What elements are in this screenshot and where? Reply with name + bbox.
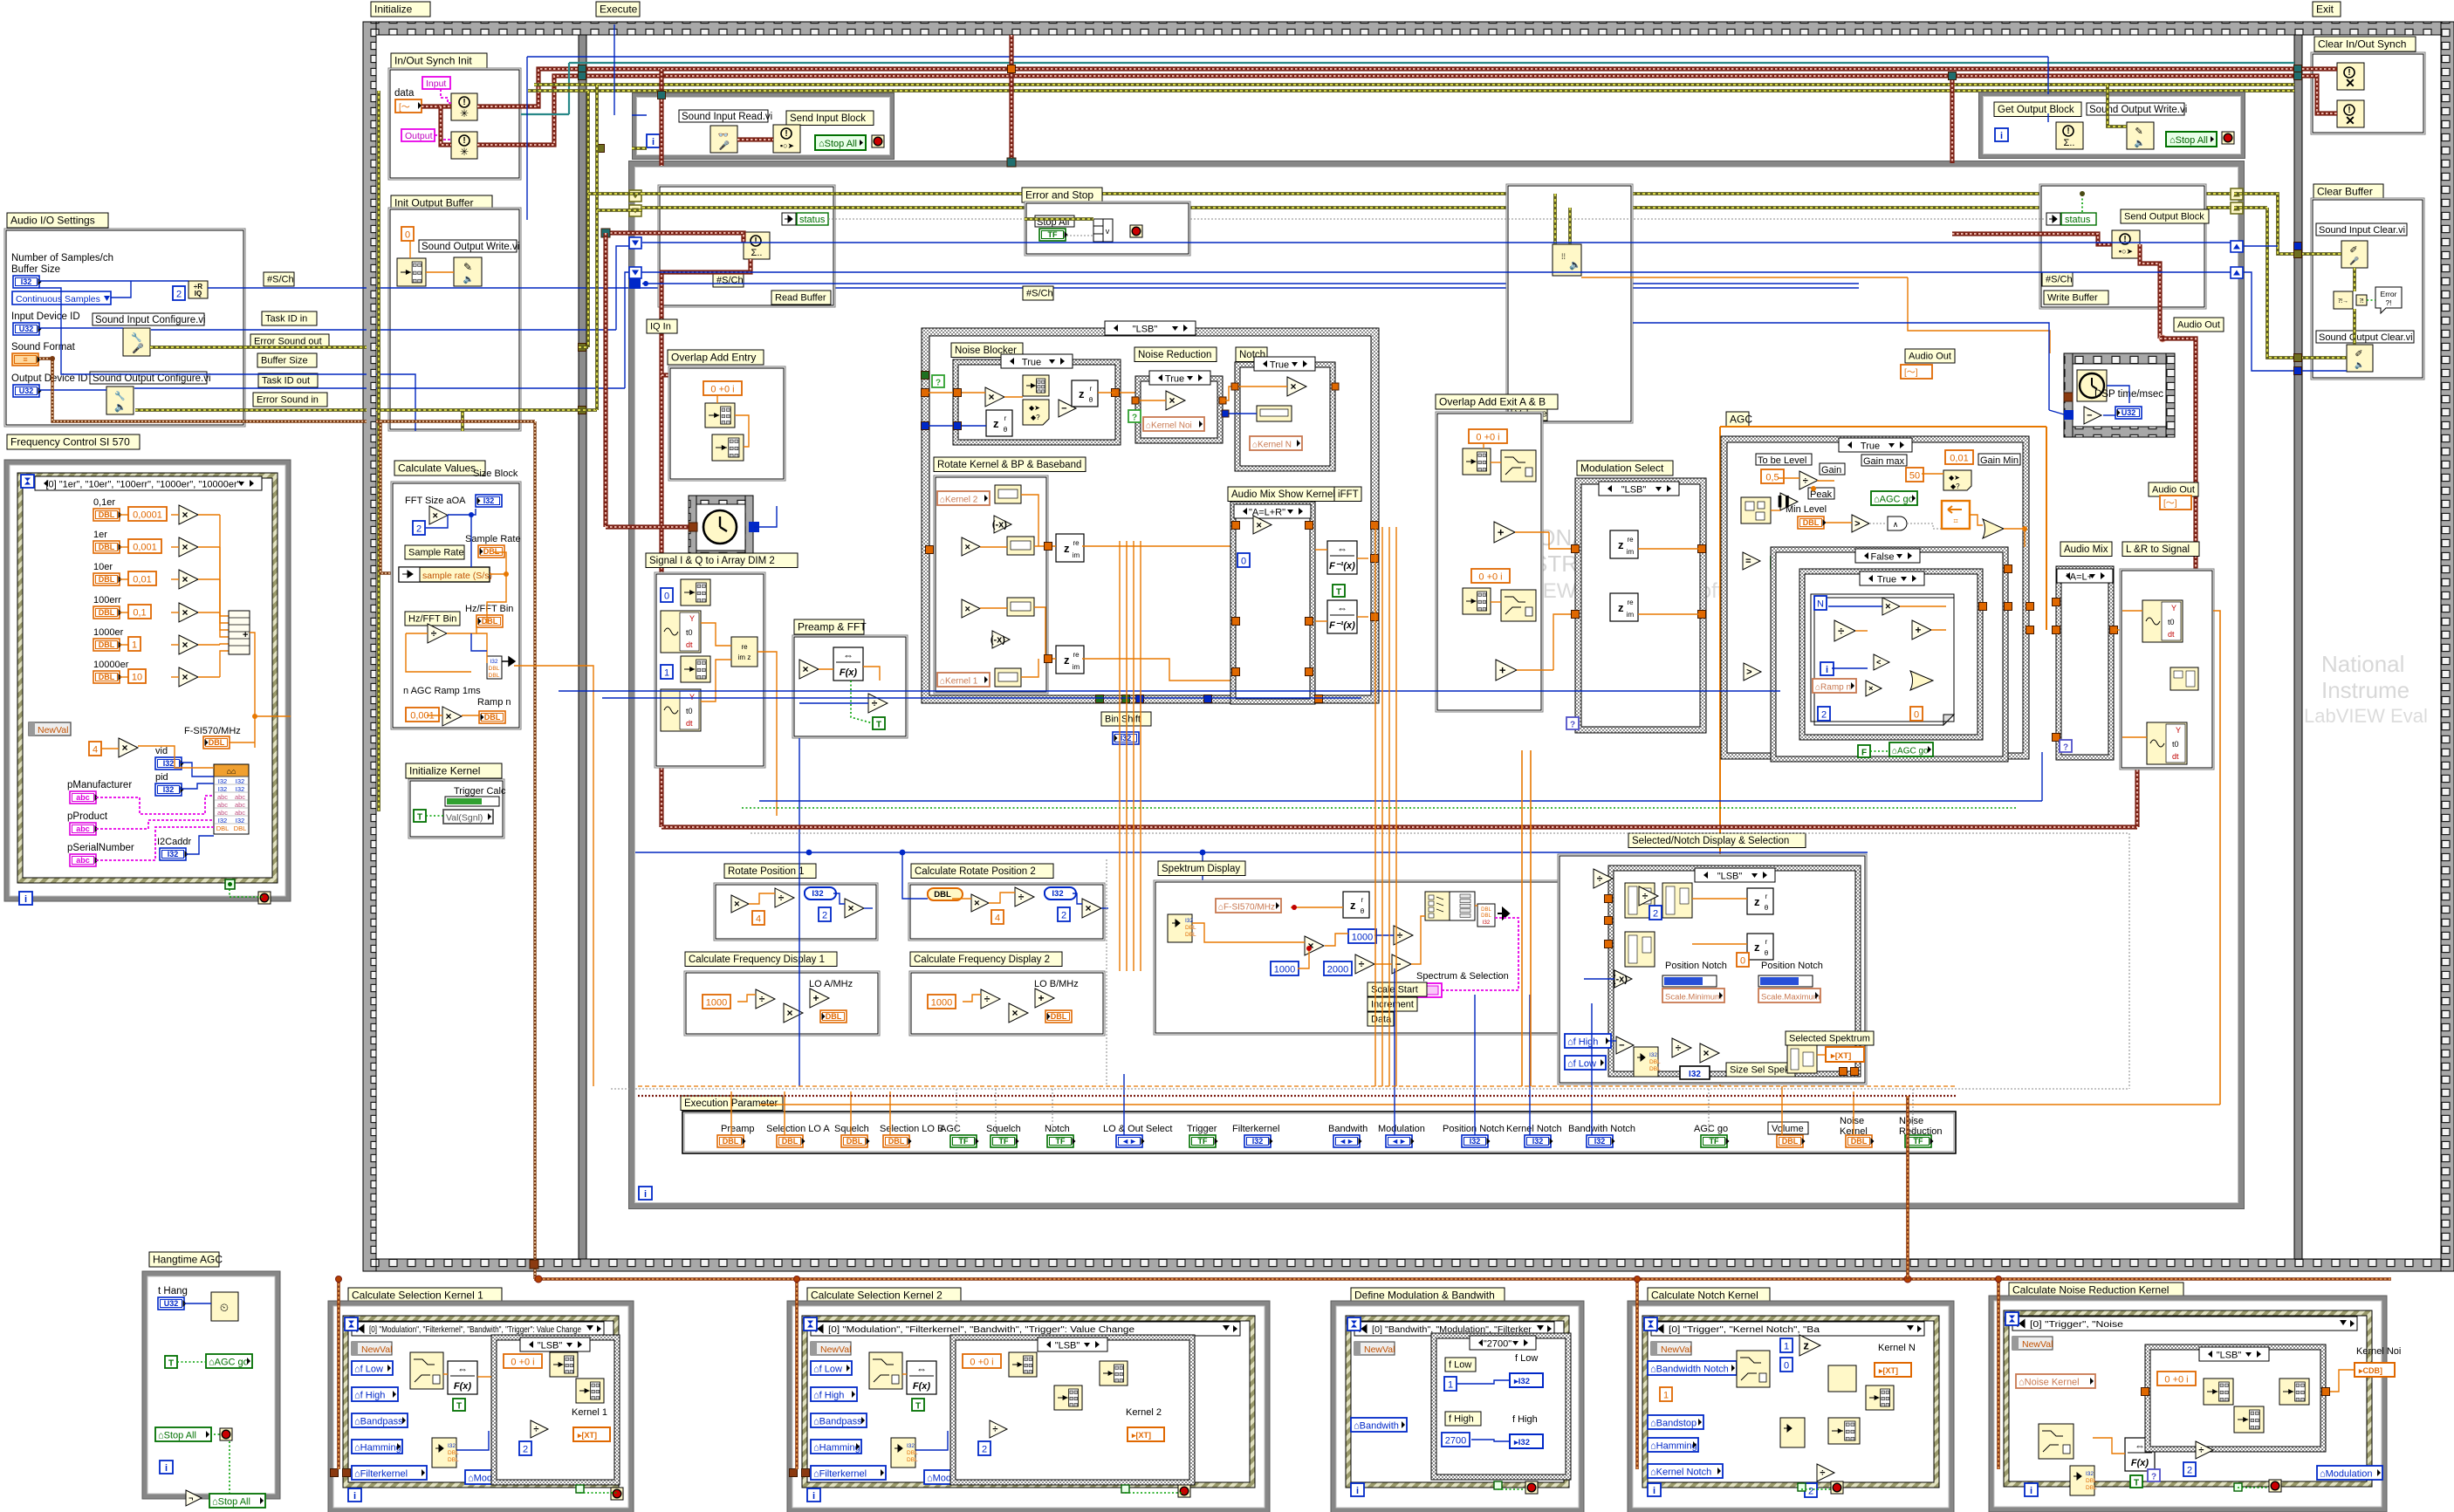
svg-text:[0] "Modulation", "Filterkerne: [0] "Modulation", "Filterkernel", "Bandw… [369,1325,581,1335]
svg-text:dt: dt [2172,752,2179,761]
svg-text:Scale.Minimum: Scale.Minimum [1665,993,1722,1002]
Calculate Rotate Position 1 [724,864,816,879]
svg-text:−: − [1061,404,1066,414]
svg-text:To be Level: To be Level [1758,455,1806,466]
svg-text:Preamp & FFT: Preamp & FFT [798,621,867,633]
svg-text:DBL: DBL [483,547,500,556]
BIG LSB CASE [922,328,1379,703]
Calculate Frequency Display 2 [910,952,1062,967]
svg-text:÷: ÷ [778,892,785,904]
svg-text:NewVal: NewVal [2022,1339,2053,1350]
svg-text:<: < [1876,658,1881,667]
svg-text:DBL: DBL [234,824,247,832]
svg-text:Sound Input Read.vi: Sound Input Read.vi [682,112,772,122]
svg-text:÷: ÷ [984,993,991,1005]
svg-text:10: 10 [132,673,142,683]
svg-text:Clear In/Out Synch: Clear In/Out Synch [2318,38,2406,51]
svg-text:⌂Filterkernel: ⌂Filterkernel [813,1469,867,1480]
svg-text:2700: 2700 [1445,1436,1466,1447]
svg-text:⁞⁞: ⁞⁞ [1561,252,1566,261]
svg-text:÷: ÷ [992,1425,997,1435]
svg-text:Selection LO A: Selection LO A [766,1124,830,1134]
svg-text:Noise: Noise [1840,1116,1864,1126]
svg-text:⇔: ⇔ [1337,602,1347,614]
svg-text:N: N [1817,599,1824,610]
svg-text:i: i [165,1463,168,1474]
svg-text:0 +0 i: 0 +0 i [511,1358,534,1368]
svg-text:F(x): F(x) [2131,1458,2149,1468]
svg-text:÷: ÷ [1642,890,1649,902]
svg-text:2: 2 [176,290,182,300]
svg-text:(-x): (-x) [991,635,1005,646]
svg-text:⁈: ⁈ [2359,298,2363,304]
svg-text:10000er: 10000er [93,660,129,670]
svg-text:Position Notch: Position Notch [1761,961,1823,971]
svg-text:Number of Samples/ch: Number of Samples/ch [11,253,113,263]
svg-text:[0] "Trigger", "Noise: [0] "Trigger", "Noise [2030,1320,2124,1330]
svg-text:🔈: 🔈 [463,275,474,284]
svg-text:⌂Kernel Noi: ⌂Kernel Noi [1146,421,1192,431]
svg-text:+: + [1916,624,1922,636]
svg-text:×: × [1086,902,1092,914]
svg-text:DBL: DBL [99,673,115,681]
svg-text:I32: I32 [812,889,823,899]
svg-text:im z: im z [738,653,751,661]
svg-text:L &R to Signal: L &R to Signal [2126,544,2190,555]
svg-text:÷: ÷ [533,1425,538,1435]
svg-text:▸I32: ▸I32 [1513,1438,1530,1447]
svg-text:F(x): F(x) [454,1381,472,1392]
svg-text:⌂AGC go: ⌂AGC go [1892,747,1929,756]
svg-text:2: 2 [1821,710,1827,721]
svg-text:NewVal: NewVal [1661,1344,1691,1355]
svg-text:I32: I32 [218,785,227,793]
svg-text:i: i [652,137,655,147]
svg-text:TF: TF [1056,1137,1066,1146]
svg-text:4: 4 [93,745,98,756]
svg-text:Modulation: Modulation [1378,1124,1425,1134]
svg-text:1000: 1000 [931,998,952,1009]
svg-text:"A=L+: "A=L+ [2067,572,2093,583]
svg-text:0 +0 i: 0 +0 i [1476,433,1499,443]
svg-text:50: 50 [1909,471,1920,482]
svg-text:AGC go: AGC go [1694,1124,1728,1134]
svg-text:#S/Ch: #S/Ch [267,275,294,285]
labels between box and divider [264,272,294,286]
svg-text:im: im [1627,548,1635,556]
svg-text:Val(Sgnl): Val(Sgnl) [446,813,483,824]
svg-text:+: + [1038,992,1045,1004]
svg-text:#S/Ch: #S/Ch [1026,289,1053,299]
svg-text:z: z [993,417,999,430]
svg-text:÷: ÷ [1018,891,1025,903]
svg-text:2: 2 [1061,911,1066,921]
svg-text:🔧: 🔧 [114,390,125,401]
svg-text:Noise: Noise [1899,1116,1923,1126]
svg-text:T: T [876,721,881,730]
svg-text:DBL: DBL [482,617,498,626]
In/Out Synch Init [391,53,487,68]
sequence left film border [363,22,376,1271]
svg-text:Output: Output [405,131,433,141]
svg-text:i: i [24,894,27,905]
svg-text:F(x): F(x) [840,667,858,678]
sequence top film border [363,22,2454,35]
svg-text:abc: abc [76,856,90,865]
svg-text:t0: t0 [2172,740,2179,749]
svg-text:I32: I32 [490,659,497,665]
svg-text:1000: 1000 [706,998,727,1009]
svg-text:TF: TF [1048,230,1058,239]
svg-text:▸[XT]: ▸[XT] [1878,1366,1898,1375]
svg-text:Task ID in: Task ID in [265,314,307,325]
svg-text:AGC: AGC [940,1124,961,1134]
svg-text:True: True [1877,575,1896,585]
svg-text:Size Sel Spek: Size Sel Spek [1730,1065,1790,1076]
while loop: Execute main loop [632,164,2241,1206]
Calculate Values [394,461,485,475]
svg-text:◄►: ◄► [1121,1137,1137,1146]
svg-text:T: T [2134,1479,2139,1488]
Calculate Rotate Position 2 [911,864,1053,879]
svg-text:Spektrum Display: Spektrum Display [1162,864,1240,874]
svg-text:▸[XT]: ▸[XT] [577,1431,597,1440]
svg-text:1: 1 [132,640,137,651]
svg-text:2000: 2000 [1327,965,1348,975]
svg-text:⏲: ⏲ [220,1301,229,1314]
svg-text:×: × [446,710,452,722]
svg-text:1000: 1000 [1352,933,1373,943]
svg-text:+: + [243,630,248,640]
svg-text:0: 0 [1740,956,1745,967]
svg-text:÷: ÷ [2198,1446,2204,1456]
svg-text:◆?: ◆? [1031,414,1040,421]
svg-text:pManufacturer: pManufacturer [67,780,132,790]
svg-text:T: T [456,1402,462,1412]
svg-text:re: re [1073,651,1080,659]
Frequency Control SI 570 [7,434,140,449]
svg-text:Sound Output Clear.vi: Sound Output Clear.vi [2319,332,2413,343]
svg-text:DBL: DBL [782,1137,799,1146]
svg-text:"LSB": "LSB" [538,1341,563,1351]
svg-text:÷: ÷ [1803,475,1808,486]
svg-text:Hz/FFT Bin: Hz/FFT Bin [408,614,456,625]
svg-text:Kernel 1: Kernel 1 [572,1407,607,1418]
svg-text:Gain Min: Gain Min [1980,455,2019,466]
svg-text:re: re [1627,599,1634,606]
svg-text:t0: t0 [686,707,693,715]
svg-text:Y: Y [689,614,695,623]
svg-text:⌂f Low: ⌂f Low [813,1365,842,1375]
svg-text:2: 2 [982,1445,987,1455]
svg-text:Send Input Block: Send Input Block [790,113,866,124]
svg-text:DBL: DBL [99,510,115,519]
svg-text:DBL: DBL [1803,518,1820,527]
svg-text:True: True [1861,441,1880,452]
svg-text:T: T [915,1402,921,1412]
svg-text:(-x): (-x) [1613,975,1628,985]
svg-text:F: F [1861,749,1867,758]
svg-text:⌂f High: ⌂f High [1567,1037,1598,1048]
svg-text:DBL: DBL [489,666,500,672]
long wires (center bundles) [759,800,2042,802]
svg-text:Buffer Size: Buffer Size [11,264,60,275]
svg-text:×: × [787,1007,793,1019]
svg-text:Initialize Kernel: Initialize Kernel [409,765,480,777]
svg-text:DBL: DBL [907,1457,918,1463]
svg-text:DBL: DBL [1051,1012,1067,1021]
sequence bottom film border [363,1259,2454,1271]
AGC [1726,412,1749,427]
svg-text:DBL: DBL [888,1137,905,1146]
svg-text:✕: ✕ [2345,76,2355,90]
DSP time film box [2064,353,2175,364]
while loop: Hangtime AGC [145,1274,278,1496]
svg-text:⇔: ⇔ [843,649,853,661]
svg-text:I32: I32 [1689,1070,1701,1079]
svg-text:r: r [1765,893,1768,900]
svg-text:sample rate (S/s): sample rate (S/s) [422,571,492,581]
svg-text:Sound Input Configure.vi: Sound Input Configure.vi [95,315,206,325]
svg-text:Overlap Add Entry: Overlap Add Entry [671,352,756,364]
sequence right film border [2441,22,2454,1271]
svg-text:t0: t0 [2168,618,2175,626]
svg-text:×: × [1012,1007,1018,1019]
svg-text:Init Output Buffer: Init Output Buffer [394,197,474,209]
svg-text:(-x): (-x) [992,520,1007,530]
svg-text:Exit: Exit [2316,3,2334,16]
svg-text:DBL: DBL [448,1450,459,1456]
Notch [1236,347,1267,362]
svg-text:?: ? [2151,1473,2156,1482]
svg-text:◆?: ◆? [1950,482,1960,490]
svg-text:⇔: ⇔ [1337,543,1347,555]
svg-text:×: × [803,663,809,675]
svg-text:[〜: [〜 [399,103,410,113]
svg-text:T: T [168,1359,174,1369]
svg-text:I2Caddr: I2Caddr [157,837,191,847]
while loop: Get Output Block / Sound Output Write [1981,94,2243,156]
svg-text:÷: ÷ [1397,929,1403,941]
svg-text:⇔: ⇔ [2135,1440,2145,1452]
svg-text:▪○➤: ▪○➤ [780,141,795,150]
svg-text:×: × [182,573,189,585]
svg-text:Kernel N: Kernel N [1878,1343,1916,1353]
Noise Blocker [951,343,1023,358]
svg-text:im: im [1627,611,1635,619]
svg-text:×: × [848,902,854,914]
svg-text:⌂Stop All: ⌂Stop All [819,139,857,149]
svg-text:Input: Input [426,79,446,89]
svg-text:Kernel Notch: Kernel Notch [1506,1124,1562,1134]
svg-text:◆➤: ◆➤ [1029,404,1040,412]
svg-text:Calculate Frequency Display 2: Calculate Frequency Display 2 [914,954,1050,965]
svg-text:r: r [1090,385,1093,393]
svg-text:i: i [1356,1486,1359,1496]
svg-text:Clear Buffer: Clear Buffer [2317,186,2373,198]
svg-text:I32: I32 [1470,1137,1481,1146]
svg-text:"LSB": "LSB" [1717,872,1743,882]
svg-text:×: × [182,509,189,521]
svg-text:z: z [1803,1338,1809,1351]
svg-text:DBL: DBL [99,608,115,617]
Hangtime AGC [149,1252,219,1267]
svg-text:÷: ÷ [1838,624,1844,637]
svg-text:dt: dt [686,640,693,649]
svg-text:Error and Stop: Error and Stop [1025,189,1093,202]
svg-text:DBL: DBL [2086,1485,2097,1491]
svg-text:NewVal: NewVal [1364,1344,1395,1355]
svg-text:[〜]: [〜] [2163,499,2177,509]
svg-text:Define Modulation & Bandwith: Define Modulation & Bandwith [1354,1290,1495,1302]
Send Output Block box [2039,184,2206,309]
svg-text:+: + [1498,525,1505,538]
svg-text:Audio Out: Audio Out [2152,485,2195,496]
svg-text:◄►: ◄► [1339,1137,1354,1146]
svg-text:f Low: f Low [1515,1353,1538,1364]
Bin Shift [1101,712,1151,726]
svg-text:Selected/Notch Display & Selec: Selected/Notch Display & Selection [1632,836,1789,846]
svg-text:θ: θ [1089,396,1093,404]
svg-text:#S/Ch: #S/Ch [2046,275,2073,285]
svg-text:⌂f High: ⌂f High [813,1391,844,1401]
svg-text:2: 2 [1653,909,1658,920]
svg-text:z: z [1064,653,1070,667]
while loop: Frequency Control SI 570 [7,462,288,899]
svg-text:Continuous Samples: Continuous Samples [16,294,100,304]
svg-text:0,1er: 0,1er [93,497,115,508]
svg-text:FFT Size aOA: FFT Size aOA [405,496,466,506]
svg-text:Calculate Noise Reduction Kern: Calculate Noise Reduction Kernel [2012,1284,2169,1296]
svg-text:LO A/MHz: LO A/MHz [809,979,853,989]
svg-text:10er: 10er [93,562,113,572]
svg-text:0,01: 0,01 [133,575,151,585]
svg-text:0: 0 [1784,1361,1789,1372]
svg-text:DBL: DBL [448,1457,459,1463]
svg-text:0 +0 i: 0 +0 i [710,385,734,395]
svg-text:r: r [1361,896,1364,904]
svg-text:abc: abc [217,809,228,817]
svg-text:+: + [1499,663,1506,676]
svg-text:I32: I32 [448,1443,456,1449]
svg-text:z: z [1618,601,1624,614]
svg-text:>: > [1854,519,1860,530]
svg-text:Position Notch: Position Notch [1443,1124,1505,1134]
svg-text:2: 2 [2187,1466,2192,1476]
Clear In/Out Synch (Exit frame) [2314,37,2416,51]
svg-text:×: × [1291,380,1297,393]
svg-text:DBL: DBL [1851,1137,1868,1146]
Preamp & FFT [794,619,864,634]
svg-text:0,5: 0,5 [1765,473,1779,483]
svg-text:Sample Rate: Sample Rate [408,548,464,558]
svg-text:2: 2 [523,1445,528,1455]
svg-text:DBL: DBL [99,640,115,649]
svg-text:⌂Ramp n: ⌂Ramp n [1815,683,1851,693]
svg-text:r: r [1765,938,1768,946]
svg-text:×: × [1703,1047,1710,1059]
svg-text:DBL: DBL [1481,907,1491,913]
svg-text:I32: I32 [1052,889,1063,899]
svg-text:Hangtime AGC: Hangtime AGC [153,1254,223,1266]
svg-text:U32: U32 [164,1299,179,1308]
svg-text:×: × [1169,394,1176,407]
svg-text:0: 0 [1241,557,1246,567]
svg-text:?: ? [1132,414,1137,423]
svg-text:Filterkernel: Filterkernel [1232,1124,1279,1134]
svg-text:1: 1 [1448,1380,1453,1391]
Overlap Add Entry [668,350,764,365]
svg-text:✐: ✐ [2355,349,2362,359]
svg-text:"2700": "2700" [1484,1339,1511,1350]
svg-text:🔈: 🔈 [1569,260,1581,270]
svg-text:×: × [965,604,970,614]
svg-text:Read Buffer: Read Buffer [775,293,826,304]
svg-text:F⁻¹(x): F⁻¹(x) [1329,620,1355,631]
svg-text:TF: TF [1198,1137,1208,1146]
svg-text:Kernel Noi: Kernel Noi [2356,1346,2401,1357]
svg-text:×: × [433,510,438,521]
svg-text:!: ! [463,98,465,107]
svg-text:⌂Filterkernel: ⌂Filterkernel [354,1469,408,1480]
svg-text:×: × [1257,520,1262,530]
svg-text:DBL: DBL [1649,1059,1661,1065]
svg-text:Min Level: Min Level [1786,504,1827,515]
svg-text:I32: I32 [1649,1052,1657,1058]
svg-text:DBL: DBL [1185,925,1196,931]
svg-text:dt: dt [2168,630,2175,639]
svg-text:Rotate Position 1: Rotate Position 1 [728,866,805,877]
svg-text:True: True [1022,358,1041,368]
svg-text:DBL: DBL [484,713,501,722]
svg-text:Scale.Maximum: Scale.Maximum [1761,993,1820,1002]
svg-text:0 +0 i: 0 +0 i [2164,1375,2188,1385]
svg-text:"LSB": "LSB" [1055,1341,1080,1351]
svg-text:Y: Y [2176,726,2181,735]
svg-text:iFFT: iFFT [1338,489,1359,500]
svg-text:×: × [182,639,189,651]
svg-text:I32: I32 [1594,1137,1606,1146]
svg-text:TF: TF [999,1137,1009,1146]
svg-text:im: im [1073,663,1080,671]
svg-text:Kernel 2: Kernel 2 [1126,1407,1162,1418]
svg-text:⌂Bandwidth Notch: ⌂Bandwidth Notch [1650,1365,1729,1375]
svg-text:TF: TF [959,1137,969,1146]
svg-text:Error Sound out: Error Sound out [254,337,322,347]
svg-text:⌂Bandpass: ⌂Bandpass [813,1417,862,1427]
svg-text:LabVIEW Eval: LabVIEW Eval [2304,705,2428,727]
svg-text:re: re [741,643,748,651]
svg-text:🎤: 🎤 [2349,256,2359,265]
svg-text:Overlap Add Exit A & B: Overlap Add Exit A & B [1439,396,1546,408]
svg-text:Audio Out: Audio Out [1909,352,1951,362]
svg-text:÷: ÷ [872,697,878,709]
svg-text:TF: TF [1710,1137,1719,1146]
svg-text:U32: U32 [19,387,34,395]
while loop: Send Input Block [634,95,892,157]
svg-text:abc: abc [76,793,90,802]
svg-text:[0] "1er", "10er", "100err", ": [0] "1er", "10er", "100err", "1000er", "… [45,480,240,490]
svg-text:I32: I32 [236,785,244,793]
svg-text:Audio Mix Show Kernel: Audio Mix Show Kernel [1231,489,1335,500]
svg-text:dt: dt [686,719,693,728]
svg-text:i: i [2000,131,2003,141]
svg-text:z: z [1064,542,1070,555]
svg-text:∧: ∧ [1893,520,1899,529]
svg-text:abc: abc [217,801,228,809]
svg-text:National: National [2321,651,2404,677]
svg-text:◄►: ◄► [1391,1137,1407,1146]
